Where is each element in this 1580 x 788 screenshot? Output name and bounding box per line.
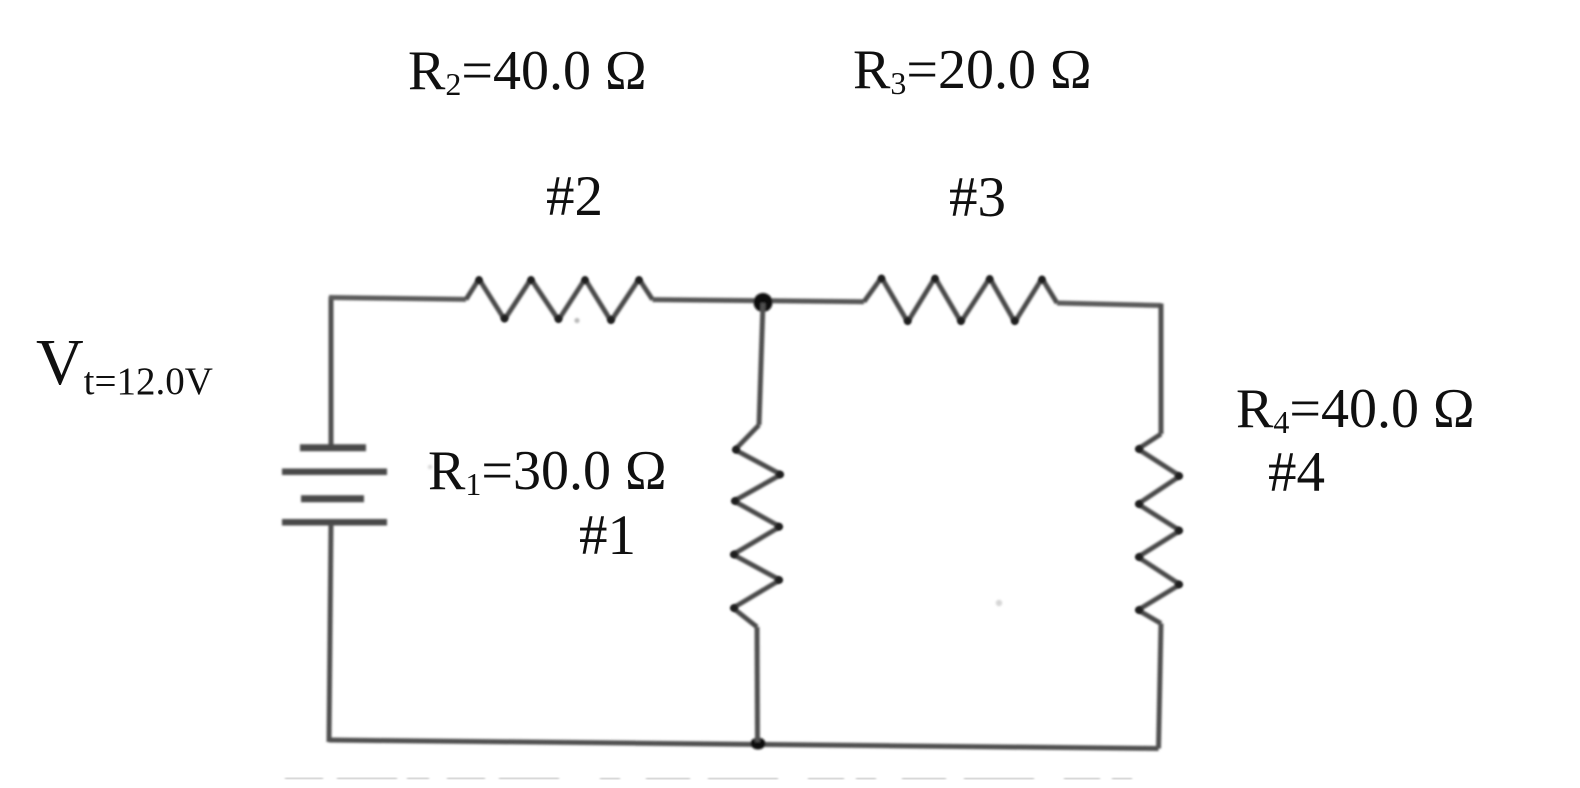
resistor R3 zigzag [864, 278, 1057, 323]
resistor R4 zigzag [1138, 434, 1180, 624]
label R2 value [408, 43, 647, 99]
resistor R2 zigzag [466, 279, 653, 321]
wire: right vertical bottom [1159, 624, 1162, 749]
label Vt=12.0V [36, 330, 213, 396]
artifact: faint scan specks [428, 318, 1002, 606]
battery Vt plate 3 short [301, 495, 364, 502]
label R4 value [1236, 381, 1475, 437]
label #1 [579, 507, 636, 564]
wire: middle vertical bottom [755, 627, 761, 742]
wire: middle vertical top [759, 303, 763, 425]
wire: right vertical top [1159, 304, 1164, 435]
artifact: faint dashed scan line bottom [285, 778, 1150, 779]
resistor R1 zigzag [733, 425, 781, 627]
wire: top horizontal left segment [329, 298, 466, 300]
wire: top horizontal right segment [1057, 303, 1161, 306]
zigzag vertex dots (scan ink blobs) [475, 275, 1182, 614]
label R3 value [853, 42, 1092, 98]
battery Vt plate 4 long [282, 519, 387, 526]
wire: left vertical battery bottom lead [329, 524, 331, 742]
label #3 [949, 169, 1006, 226]
label #2 [546, 168, 603, 225]
wire: left vertical battery top lead [329, 297, 334, 447]
wire: bottom horizontal [329, 740, 1159, 749]
label R1 value [428, 443, 667, 499]
node: bottom junction dot [751, 738, 766, 750]
battery Vt plate 1 short top [300, 444, 366, 451]
node: top junction dot [754, 293, 773, 312]
label #4 [1268, 444, 1325, 501]
battery Vt plate 2 long [282, 468, 387, 475]
wire: top horizontal middle segment [653, 300, 865, 302]
